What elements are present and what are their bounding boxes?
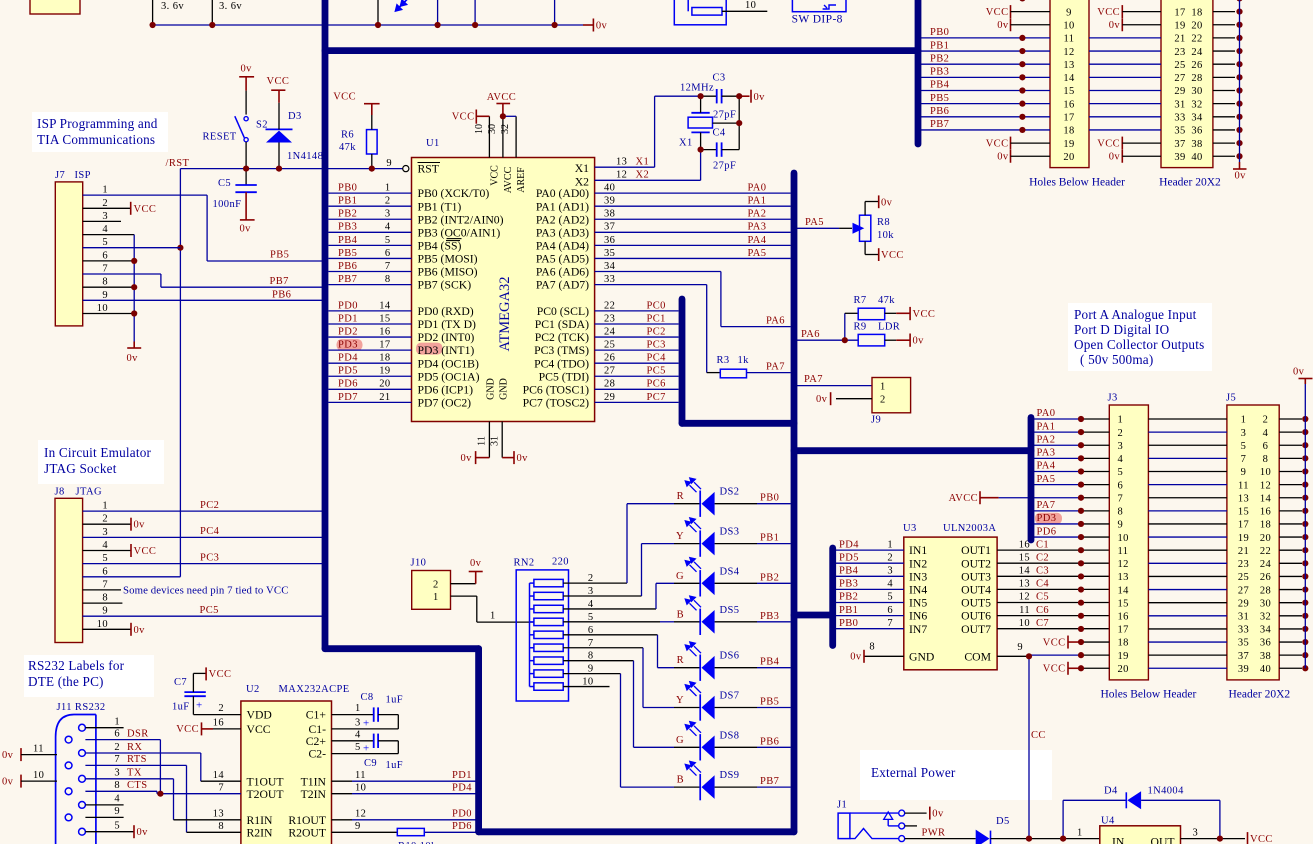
svg-text:PB1: PB1 bbox=[760, 533, 779, 544]
connector J7 bbox=[55, 182, 82, 326]
svg-text:PB1: PB1 bbox=[839, 605, 858, 616]
svg-text:PD1: PD1 bbox=[338, 313, 358, 324]
svg-text:4: 4 bbox=[114, 794, 120, 805]
svg-text:40: 40 bbox=[1191, 152, 1202, 163]
svg-text:27: 27 bbox=[604, 366, 615, 377]
svg-text:U3: U3 bbox=[903, 523, 917, 534]
svg-text:J3: J3 bbox=[1108, 393, 1118, 404]
svg-text:10k: 10k bbox=[877, 230, 894, 241]
svg-text:Holes Below Header: Holes Below Header bbox=[1101, 689, 1197, 701]
svg-text:24: 24 bbox=[604, 326, 616, 337]
svg-text:7: 7 bbox=[102, 264, 108, 275]
svg-text:ISP: ISP bbox=[75, 170, 91, 181]
svg-text:19: 19 bbox=[1238, 533, 1249, 544]
svg-text:12: 12 bbox=[1260, 480, 1271, 491]
svg-text:VCC: VCC bbox=[134, 204, 157, 215]
connector J3 body bbox=[1109, 405, 1148, 680]
regulator U4 bbox=[1100, 826, 1181, 844]
svg-text:35: 35 bbox=[1174, 126, 1185, 137]
svg-text:PD1 (TX D): PD1 (TX D) bbox=[418, 318, 477, 331]
J11 pin1 stub bbox=[85, 727, 123, 729]
svg-text:2: 2 bbox=[1263, 415, 1269, 426]
svg-text:18: 18 bbox=[1260, 520, 1271, 531]
svg-text:J9: J9 bbox=[871, 415, 881, 426]
svg-text:PA3: PA3 bbox=[748, 222, 767, 233]
svg-text:33: 33 bbox=[1174, 113, 1185, 124]
crystal X1 bbox=[688, 117, 712, 128]
svg-text:17: 17 bbox=[1063, 113, 1074, 124]
svg-text:PB5: PB5 bbox=[270, 250, 289, 261]
svg-text:+: + bbox=[363, 742, 370, 754]
svg-text:PB3: PB3 bbox=[930, 67, 949, 78]
svg-text:3. 6v: 3. 6v bbox=[219, 1, 242, 12]
ground 0v U1 gnd pins bbox=[476, 457, 490, 459]
svg-text:U4: U4 bbox=[1101, 816, 1115, 827]
svg-text:3: 3 bbox=[114, 768, 120, 779]
capacitor C5 bbox=[245, 169, 247, 185]
svg-text:4: 4 bbox=[887, 579, 893, 590]
svg-text:C4: C4 bbox=[1036, 579, 1049, 590]
svg-text:D4: D4 bbox=[1104, 786, 1118, 797]
U1 pin PC4 bbox=[595, 362, 679, 364]
LED DS7 bbox=[643, 707, 674, 709]
J8 pin10 wire 0v bbox=[83, 628, 131, 630]
svg-text:IN7: IN7 bbox=[909, 623, 927, 636]
svg-text:20: 20 bbox=[1118, 664, 1129, 675]
svg-text:PC7 (TOSC2): PC7 (TOSC2) bbox=[523, 396, 589, 409]
svg-text:1: 1 bbox=[490, 611, 496, 622]
ground 0v top rail bbox=[583, 24, 593, 26]
svg-text:30: 30 bbox=[487, 124, 498, 134]
svg-text:35: 35 bbox=[604, 248, 615, 259]
svg-text:3: 3 bbox=[102, 527, 108, 538]
svg-text:TX: TX bbox=[127, 768, 142, 779]
svg-text:2: 2 bbox=[114, 742, 120, 753]
svg-text:PD6: PD6 bbox=[338, 379, 358, 390]
svg-text:0v: 0v bbox=[134, 625, 146, 636]
svg-text:25: 25 bbox=[1174, 60, 1185, 71]
capacitor C4 bbox=[701, 149, 717, 151]
svg-text:6: 6 bbox=[114, 728, 120, 739]
svg-text:PB6: PB6 bbox=[760, 736, 779, 747]
svg-text:1N4004: 1N4004 bbox=[1148, 786, 1185, 797]
svg-text:C5: C5 bbox=[218, 178, 231, 189]
svg-text:14: 14 bbox=[1063, 73, 1075, 84]
wire RN2 pin10 stub bbox=[563, 686, 609, 688]
svg-text:PC7: PC7 bbox=[647, 392, 666, 403]
svg-text:9: 9 bbox=[1241, 467, 1247, 478]
svg-text:PB7: PB7 bbox=[270, 276, 289, 287]
junction dot PA6 bbox=[842, 337, 848, 343]
svg-text:PD7 (OC2): PD7 (OC2) bbox=[418, 396, 472, 409]
J8 pin5 wire PC3 bbox=[83, 563, 322, 565]
svg-text:PB0: PB0 bbox=[930, 27, 949, 38]
svg-text:PD5 (OC1A): PD5 (OC1A) bbox=[418, 370, 480, 383]
svg-text:Open Collector Outputs: Open Collector Outputs bbox=[1074, 337, 1204, 352]
svg-text:PA6 (AD6): PA6 (AD6) bbox=[536, 266, 589, 279]
svg-text:8: 8 bbox=[1263, 454, 1269, 465]
capacitor C9 bbox=[332, 740, 374, 742]
svg-text:PC3: PC3 bbox=[647, 340, 666, 351]
svg-text:( 50v 500ma): ( 50v 500ma) bbox=[1080, 352, 1153, 367]
J11 pin9 stub bbox=[85, 816, 123, 818]
svg-text:RX: RX bbox=[127, 742, 142, 753]
svg-text:10: 10 bbox=[745, 0, 756, 11]
svg-text:AVCC: AVCC bbox=[487, 92, 516, 103]
J11 pin2 RX wire bbox=[85, 752, 200, 754]
svg-text:23: 23 bbox=[604, 313, 615, 324]
svg-text:11: 11 bbox=[1019, 605, 1030, 616]
wire T2IN PD4 bbox=[332, 793, 353, 795]
junction dots J7 gnd chain bbox=[131, 258, 137, 264]
wire R2OUT PD6 via R10 bbox=[332, 831, 398, 833]
J7 pin 3 stub bbox=[83, 220, 121, 222]
svg-text:PB2: PB2 bbox=[760, 572, 779, 583]
svg-text:28: 28 bbox=[1260, 585, 1271, 596]
U1 pin PC2 bbox=[595, 336, 679, 338]
svg-text:PC2: PC2 bbox=[200, 500, 219, 511]
J8 pin8 stub bbox=[83, 602, 123, 604]
U1 pin PD0 bbox=[329, 310, 412, 312]
svg-text:9: 9 bbox=[102, 606, 108, 617]
svg-text:D5: D5 bbox=[996, 816, 1010, 827]
junction dots RST node bbox=[243, 166, 249, 172]
ground 0v crystal bbox=[739, 95, 749, 97]
svg-text:VCC: VCC bbox=[913, 309, 936, 320]
svg-text:8: 8 bbox=[114, 780, 120, 791]
svg-text:5: 5 bbox=[102, 237, 108, 248]
svg-text:2: 2 bbox=[218, 703, 224, 714]
svg-text:0v: 0v bbox=[2, 750, 14, 761]
ground 0v J10 pin2 bbox=[451, 583, 476, 585]
svg-text:R3: R3 bbox=[717, 355, 730, 366]
svg-text:0v: 0v bbox=[1235, 171, 1247, 182]
svg-text:PD2: PD2 bbox=[338, 326, 358, 337]
svg-text:9: 9 bbox=[386, 158, 392, 169]
LED DS2 bbox=[627, 503, 674, 505]
svg-text:G: G bbox=[676, 571, 684, 582]
svg-text:16: 16 bbox=[1260, 507, 1271, 518]
svg-text:D3: D3 bbox=[288, 111, 302, 122]
wire PA7 via R3 bbox=[595, 284, 707, 286]
svg-text:PA5: PA5 bbox=[805, 217, 824, 228]
svg-text:T2IN: T2IN bbox=[301, 788, 327, 801]
svg-text:DS5: DS5 bbox=[720, 605, 740, 616]
J7 pin 1 wire (PB5) bbox=[83, 194, 207, 196]
svg-text:0v: 0v bbox=[816, 394, 828, 405]
text block In Circuit Emulator bbox=[38, 440, 164, 484]
svg-text:22: 22 bbox=[1260, 546, 1271, 557]
svg-text:6: 6 bbox=[887, 605, 893, 616]
svg-text:J1: J1 bbox=[837, 800, 847, 811]
U1 pin PA0 bbox=[595, 192, 791, 194]
svg-text:PB1 (T1): PB1 (T1) bbox=[418, 200, 462, 213]
svg-text:C7: C7 bbox=[174, 677, 187, 688]
ground 0v J9 pin2 bbox=[836, 398, 872, 400]
svg-text:0v: 0v bbox=[1109, 152, 1121, 163]
svg-text:2: 2 bbox=[880, 395, 886, 406]
svg-text:40: 40 bbox=[604, 183, 615, 194]
svg-text:11: 11 bbox=[33, 743, 44, 754]
svg-text:PC0: PC0 bbox=[647, 300, 666, 311]
svg-text:39: 39 bbox=[1174, 152, 1185, 163]
J7 pin 9 wire (PB6) bbox=[83, 299, 322, 301]
ground 0v above S2 bbox=[239, 76, 254, 78]
resistor network RN2 bbox=[516, 570, 568, 701]
svg-text:PD6: PD6 bbox=[1037, 526, 1057, 537]
U1 pin PB6 bbox=[329, 271, 412, 273]
U1 pin PB3 bbox=[329, 231, 412, 233]
U1 pin11 GND bbox=[488, 422, 490, 458]
svg-text:X1: X1 bbox=[679, 138, 693, 149]
U1 pin12 X2 wire bbox=[595, 179, 701, 181]
svg-text:2: 2 bbox=[887, 552, 893, 563]
svg-text:17: 17 bbox=[379, 340, 390, 351]
svg-text:VCC: VCC bbox=[1250, 834, 1273, 844]
svg-text:13: 13 bbox=[1063, 60, 1074, 71]
svg-text:PB0: PB0 bbox=[338, 183, 357, 194]
wire /RST bbox=[180, 168, 402, 170]
svg-text:1: 1 bbox=[887, 539, 893, 550]
svg-text:20: 20 bbox=[379, 379, 390, 390]
svg-text:28: 28 bbox=[604, 379, 615, 390]
svg-text:4: 4 bbox=[102, 224, 108, 235]
junction dots crystal bbox=[698, 93, 704, 99]
svg-text:VCC: VCC bbox=[247, 723, 271, 736]
svg-text:11: 11 bbox=[1064, 34, 1075, 45]
svg-text:0v: 0v bbox=[596, 21, 608, 32]
svg-text:VCC: VCC bbox=[490, 165, 501, 186]
svg-text:PD6 (ICP1): PD6 (ICP1) bbox=[418, 383, 474, 396]
svg-text:3: 3 bbox=[1241, 428, 1247, 439]
svg-text:6: 6 bbox=[102, 250, 108, 261]
svg-text:PA7: PA7 bbox=[804, 374, 823, 385]
wire RN2 pin2 to DS2 bbox=[563, 582, 627, 584]
svg-text:J8: J8 bbox=[55, 487, 65, 498]
svg-text:0v: 0v bbox=[127, 353, 139, 364]
svg-text:4: 4 bbox=[385, 222, 391, 233]
svg-text:1: 1 bbox=[355, 703, 361, 714]
svg-text:Header 20X2: Header 20X2 bbox=[1229, 689, 1291, 701]
wire RN2 pin6 to DS6 bbox=[563, 634, 657, 636]
svg-text:B: B bbox=[677, 609, 684, 620]
svg-text:23: 23 bbox=[1238, 559, 1249, 570]
svg-text:J11 RS232: J11 RS232 bbox=[57, 702, 106, 713]
U1 pin PC0 bbox=[595, 310, 679, 312]
U3 pin9 COM bbox=[997, 655, 1029, 657]
svg-text:9: 9 bbox=[1066, 7, 1072, 18]
ground 0v J1 bbox=[905, 812, 927, 814]
svg-text:0v: 0v bbox=[1109, 20, 1121, 31]
svg-text:13: 13 bbox=[1019, 579, 1030, 590]
svg-text:PB4: PB4 bbox=[839, 566, 859, 577]
svg-text:GND: GND bbox=[486, 378, 497, 400]
svg-text:7: 7 bbox=[102, 579, 108, 590]
svg-text:Port D Digital IO: Port D Digital IO bbox=[1074, 322, 1169, 337]
U1 pin PD4 bbox=[329, 362, 412, 364]
svg-text:9: 9 bbox=[1118, 520, 1124, 531]
svg-text:8: 8 bbox=[102, 593, 108, 604]
U1 pin PB2 bbox=[329, 218, 412, 220]
svg-text:U2: U2 bbox=[246, 684, 260, 695]
svg-text:PC1: PC1 bbox=[647, 313, 666, 324]
svg-text:RN2: RN2 bbox=[514, 558, 535, 569]
svg-text:10: 10 bbox=[1118, 533, 1129, 544]
svg-text:1: 1 bbox=[1118, 415, 1124, 426]
U1 pin PB1 bbox=[329, 205, 412, 207]
U1 pin PD7 bbox=[329, 401, 412, 403]
U1 pin13 X1 wire bbox=[595, 166, 655, 168]
wire PD3 to J3 pin9 bbox=[1035, 513, 1062, 525]
svg-text:OUT1: OUT1 bbox=[961, 544, 991, 557]
U3 pin IN7 bbox=[836, 628, 904, 630]
wires PB0-PB7 to headers bbox=[921, 37, 1050, 39]
svg-text:Some devices need pin 7 tied t: Some devices need pin 7 tied to VCC bbox=[123, 585, 289, 597]
svg-text:External Power: External Power bbox=[871, 765, 956, 780]
svg-text:24: 24 bbox=[1191, 47, 1203, 58]
svg-text:IN2: IN2 bbox=[909, 557, 927, 570]
svg-text:12: 12 bbox=[355, 808, 366, 819]
svg-text:DS3: DS3 bbox=[720, 527, 740, 538]
svg-text:9: 9 bbox=[355, 821, 361, 832]
wire X2 net bbox=[700, 150, 702, 181]
J7 ground 0v bbox=[133, 342, 135, 349]
svg-text:PB5 (MOSI): PB5 (MOSI) bbox=[418, 253, 478, 266]
svg-text:PA3 (AD3): PA3 (AD3) bbox=[536, 226, 589, 239]
J11 pin8 CTS wire bbox=[85, 790, 157, 792]
svg-text:10: 10 bbox=[33, 770, 44, 781]
svg-text:PB1: PB1 bbox=[930, 40, 949, 51]
J8 pin9 wire PC5 bbox=[83, 615, 322, 617]
svg-text:PB6: PB6 bbox=[930, 106, 949, 117]
U1 pin PD5 bbox=[329, 375, 412, 377]
bus wires bbox=[322, 0, 329, 649]
svg-text:PD0: PD0 bbox=[452, 809, 472, 820]
J11 pin6 DSR wire bbox=[85, 739, 160, 741]
J7 pin 7 wire (PB7) bbox=[83, 273, 161, 275]
wire R1OUT PD0 bbox=[332, 819, 353, 821]
svg-text:DTE (the PC): DTE (the PC) bbox=[28, 674, 104, 689]
svg-text:32: 32 bbox=[1191, 99, 1202, 110]
svg-text:PB3: PB3 bbox=[760, 611, 779, 622]
svg-text:5: 5 bbox=[102, 553, 108, 564]
svg-text:8: 8 bbox=[385, 274, 391, 285]
svg-text:OUT7: OUT7 bbox=[961, 623, 991, 636]
U1 pin PA1 bbox=[595, 205, 791, 207]
U3 pin IN4 bbox=[836, 588, 904, 590]
svg-text:RS232 Labels for: RS232 Labels for bbox=[28, 658, 125, 673]
svg-text:C5: C5 bbox=[1036, 592, 1049, 603]
potentiometer R8 bbox=[860, 215, 871, 241]
svg-text:RESET: RESET bbox=[203, 132, 237, 143]
svg-text:PD2 (INT0): PD2 (INT0) bbox=[418, 331, 475, 344]
text block External Power bbox=[860, 750, 1052, 800]
svg-text:C2+: C2+ bbox=[306, 735, 327, 748]
svg-text:10: 10 bbox=[97, 619, 108, 630]
wire RN2 pin3 to DS3 bbox=[563, 595, 641, 597]
svg-text:13: 13 bbox=[616, 156, 627, 167]
svg-text:VCC: VCC bbox=[881, 250, 904, 261]
svg-text:R: R bbox=[677, 655, 684, 666]
svg-text:PB5: PB5 bbox=[760, 697, 779, 708]
svg-text:Port A Analogue Input: Port A Analogue Input bbox=[1074, 307, 1197, 322]
svg-text:PD0 (RXD): PD0 (RXD) bbox=[418, 305, 474, 318]
svg-text:3: 3 bbox=[385, 209, 391, 220]
svg-text:2: 2 bbox=[102, 198, 108, 209]
svg-text:VCC: VCC bbox=[452, 112, 475, 123]
U1 pin10 VCC bbox=[488, 116, 490, 157]
svg-text:5: 5 bbox=[887, 592, 893, 603]
svg-text:0v: 0v bbox=[470, 558, 482, 569]
svg-text:PC3: PC3 bbox=[200, 553, 219, 564]
junction dots J3 rows 11-17 bbox=[1078, 547, 1084, 553]
U1 pin31 GND bbox=[501, 422, 503, 458]
power VCC right bbox=[1247, 832, 1249, 844]
text block RS232 Labels bbox=[24, 655, 154, 697]
svg-text:IN6: IN6 bbox=[909, 610, 927, 623]
svg-text:DS6: DS6 bbox=[720, 651, 740, 662]
svg-text:PD1: PD1 bbox=[452, 770, 472, 781]
wire RN2 pin4 to DS4 bbox=[563, 608, 656, 610]
svg-text:DS7: DS7 bbox=[720, 691, 740, 702]
svg-text:4: 4 bbox=[102, 540, 108, 551]
wire top horizontal 0v rail bbox=[153, 24, 583, 26]
svg-text:PA0 (AD0): PA0 (AD0) bbox=[536, 187, 589, 200]
diode D4 1N4004 bbox=[1062, 800, 1064, 838]
svg-text:IN1: IN1 bbox=[909, 544, 927, 557]
svg-text:PA3: PA3 bbox=[1037, 448, 1056, 459]
LED D1 arrows (cut off) bbox=[396, 0, 411, 11]
svg-text:24: 24 bbox=[1260, 559, 1272, 570]
svg-text:IN5: IN5 bbox=[909, 597, 927, 610]
U1 pin PB0 bbox=[329, 192, 412, 194]
J11 pin7 RTS wire bbox=[85, 764, 186, 766]
svg-text:34: 34 bbox=[1191, 113, 1203, 124]
svg-text:PA0: PA0 bbox=[748, 183, 767, 194]
svg-text:4: 4 bbox=[1118, 454, 1124, 465]
svg-text:37: 37 bbox=[604, 222, 615, 233]
svg-text:C2-: C2- bbox=[308, 748, 326, 761]
svg-text:1: 1 bbox=[385, 183, 391, 194]
svg-text:1uF: 1uF bbox=[172, 702, 190, 713]
svg-text:16: 16 bbox=[1063, 99, 1074, 110]
svg-text:R9: R9 bbox=[854, 322, 867, 333]
svg-text:PD6: PD6 bbox=[452, 821, 472, 832]
svg-text:30: 30 bbox=[1260, 598, 1271, 609]
svg-text:17: 17 bbox=[1238, 520, 1249, 531]
svg-text:27: 27 bbox=[1238, 585, 1249, 596]
text block Port A Analogue bbox=[1068, 303, 1212, 371]
LED DS8 bbox=[634, 746, 675, 748]
connector J10 bbox=[412, 571, 451, 610]
svg-text:PA2: PA2 bbox=[1037, 434, 1056, 445]
svg-text:PB7: PB7 bbox=[760, 776, 779, 787]
svg-text:5: 5 bbox=[1241, 441, 1247, 452]
svg-text:1: 1 bbox=[880, 381, 886, 392]
svg-text:6: 6 bbox=[385, 248, 391, 259]
wire RN2 pin7 to DS7 bbox=[563, 647, 643, 649]
svg-text:4: 4 bbox=[1263, 428, 1269, 439]
svg-text:PC2: PC2 bbox=[647, 326, 666, 337]
svg-text:29: 29 bbox=[1174, 86, 1185, 97]
svg-text:PB7: PB7 bbox=[930, 119, 949, 130]
svg-text:0v: 0v bbox=[240, 224, 252, 235]
svg-text:3: 3 bbox=[1193, 827, 1199, 838]
U1 pin9 RST bbox=[403, 166, 409, 172]
svg-text:J5: J5 bbox=[1226, 393, 1236, 404]
J7 pin 8 wire bbox=[83, 286, 135, 288]
U1 pin30 AVCC bbox=[502, 116, 504, 157]
